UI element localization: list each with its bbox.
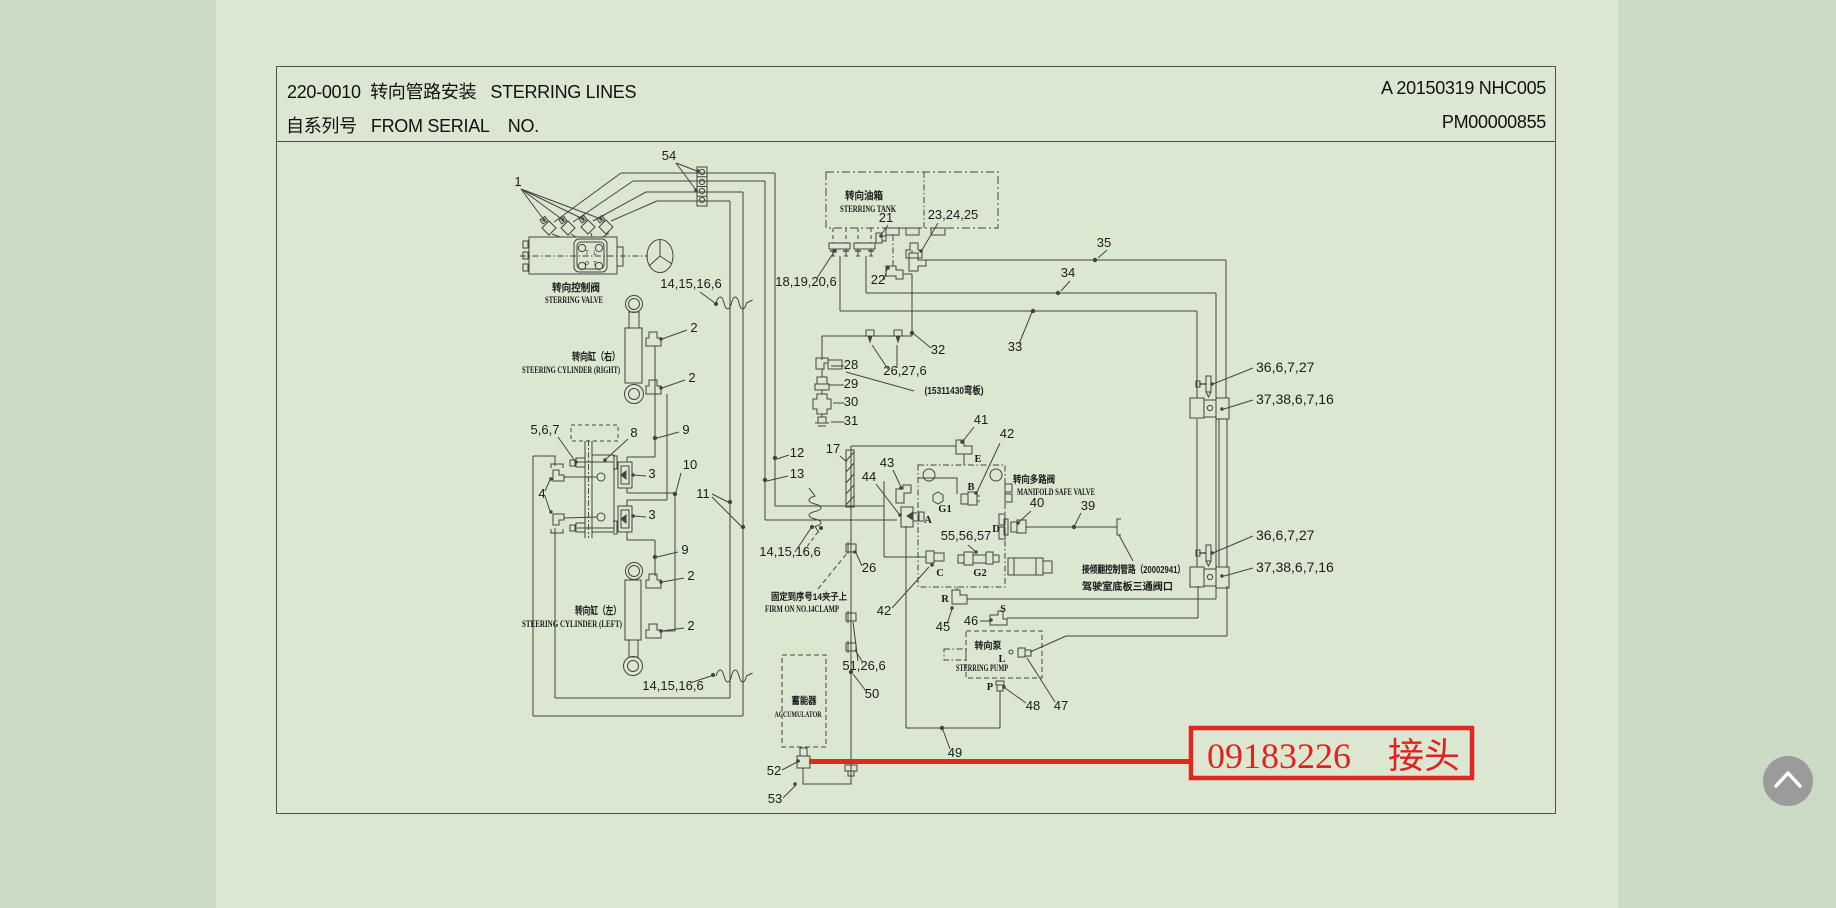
svg-text:接倾翻控制管路（20002941）: 接倾翻控制管路（20002941） (1082, 563, 1185, 576)
svg-text:26,27,6: 26,27,6 (883, 363, 926, 378)
svg-text:43: 43 (880, 455, 894, 470)
svg-text:MANIFOLD SAFE VALVE: MANIFOLD SAFE VALVE (1017, 488, 1095, 498)
svg-text:E: E (974, 454, 981, 465)
svg-text:36,6,7,27: 36,6,7,27 (1256, 359, 1315, 375)
svg-text:55,56,57: 55,56,57 (941, 528, 992, 543)
svg-text:30: 30 (844, 394, 858, 409)
svg-text:蓄能器: 蓄能器 (792, 695, 817, 707)
svg-text:2: 2 (687, 618, 694, 633)
svg-text:STEERING CYLINDER (LEFT): STEERING CYLINDER (LEFT) (522, 619, 622, 630)
svg-text:转向油箱: 转向油箱 (845, 189, 883, 202)
svg-text:接头: 接头 (1388, 736, 1460, 776)
svg-text:36,6,7,27: 36,6,7,27 (1256, 527, 1315, 543)
svg-text:STERRING VALVE: STERRING VALVE (545, 296, 603, 306)
svg-text:47: 47 (1054, 698, 1068, 713)
svg-text:21: 21 (879, 210, 893, 225)
svg-text:4: 4 (538, 486, 545, 501)
svg-text:转向缸（右）: 转向缸（右） (572, 350, 620, 363)
svg-text:P: P (987, 682, 994, 693)
svg-text:C: C (936, 568, 944, 579)
svg-text:31: 31 (844, 413, 858, 428)
svg-text:2: 2 (687, 568, 694, 583)
svg-text:13: 13 (790, 466, 804, 481)
svg-text:52: 52 (767, 763, 781, 778)
svg-text:9: 9 (682, 422, 689, 437)
svg-text:11: 11 (696, 486, 710, 501)
svg-text:9: 9 (681, 542, 688, 557)
svg-text:14,15,16,6: 14,15,16,6 (642, 678, 703, 693)
svg-text:42: 42 (1000, 426, 1014, 441)
svg-text:54: 54 (662, 148, 676, 163)
svg-text:46: 46 (964, 613, 978, 628)
svg-text:3: 3 (648, 466, 655, 481)
svg-text:2: 2 (690, 320, 697, 335)
svg-text:50: 50 (865, 686, 879, 701)
svg-text:转向多路阀: 转向多路阀 (1013, 473, 1055, 486)
svg-text:FIRM ON NO.14CLAMP: FIRM ON NO.14CLAMP (765, 604, 839, 614)
svg-text:29: 29 (844, 376, 858, 391)
svg-text:53: 53 (768, 791, 782, 806)
svg-text:8: 8 (630, 425, 637, 440)
svg-text:B: B (967, 482, 974, 493)
svg-text:49: 49 (948, 745, 962, 760)
svg-text:32: 32 (931, 342, 945, 357)
svg-text:10: 10 (683, 457, 697, 472)
svg-text:T: T (593, 262, 597, 268)
svg-text:驾驶室底板三通阀口: 驾驶室底板三通阀口 (1081, 580, 1173, 593)
svg-text:P: P (585, 262, 589, 268)
svg-text:5,6,7: 5,6,7 (531, 422, 560, 437)
svg-text:44: 44 (862, 469, 876, 484)
svg-text:G1: G1 (938, 504, 951, 515)
svg-text:35: 35 (1097, 235, 1111, 250)
svg-text:51,26,6: 51,26,6 (842, 658, 885, 673)
svg-text:12: 12 (790, 445, 804, 460)
svg-text:ACCUMULATOR: ACCUMULATOR (775, 709, 823, 719)
svg-text:34: 34 (1061, 265, 1075, 280)
svg-text:S: S (1000, 604, 1006, 615)
svg-text:17: 17 (826, 441, 840, 456)
svg-text:14,15,16,6: 14,15,16,6 (660, 276, 721, 291)
svg-text:37,38,6,7,16: 37,38,6,7,16 (1256, 391, 1334, 407)
svg-text:STEERING CYLINDER (RIGHT): STEERING CYLINDER (RIGHT) (522, 365, 620, 376)
svg-text:3: 3 (648, 507, 655, 522)
svg-text:18,19,20,6: 18,19,20,6 (775, 274, 836, 289)
svg-text:42: 42 (877, 603, 891, 618)
svg-text:转向缸（左）: 转向缸（左） (575, 604, 621, 617)
svg-text:STERRING PUMP: STERRING PUMP (956, 663, 1008, 673)
svg-text:41: 41 (974, 412, 988, 427)
svg-text:48: 48 (1026, 698, 1040, 713)
svg-text:G2: G2 (973, 568, 986, 579)
svg-text:09183226: 09183226 (1207, 736, 1351, 776)
svg-text:39: 39 (1081, 498, 1095, 513)
svg-text:(15311430弯板): (15311430弯板) (925, 384, 984, 397)
svg-text:1: 1 (514, 174, 521, 189)
svg-text:14,15,16,6: 14,15,16,6 (759, 544, 820, 559)
svg-text:固定到序号14夹子上: 固定到序号14夹子上 (771, 591, 847, 603)
svg-text:A: A (924, 515, 932, 526)
svg-text:R: R (941, 594, 949, 605)
svg-text:28: 28 (844, 357, 858, 372)
svg-text:22: 22 (871, 272, 885, 287)
svg-text:26: 26 (862, 560, 876, 575)
svg-text:转向控制阀: 转向控制阀 (552, 281, 600, 294)
svg-text:23,24,25: 23,24,25 (928, 207, 979, 222)
svg-text:D: D (992, 524, 1000, 535)
svg-text:37,38,6,7,16: 37,38,6,7,16 (1256, 559, 1334, 575)
svg-text:转向泵: 转向泵 (975, 640, 1002, 652)
svg-text:2: 2 (688, 370, 695, 385)
